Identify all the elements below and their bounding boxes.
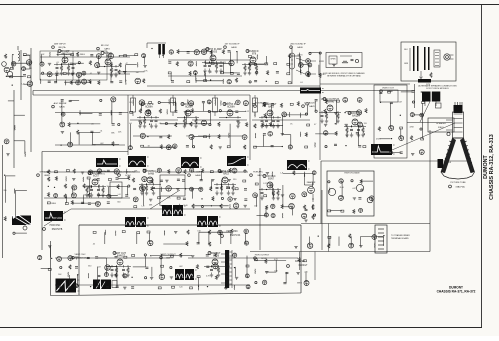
svg-text:6CB6A: 6CB6A bbox=[227, 106, 235, 109]
svg-text:DUMONT: DUMONT bbox=[483, 154, 489, 178]
svg-text:6AQ5A: 6AQ5A bbox=[352, 115, 360, 118]
svg-text:.01: .01 bbox=[56, 62, 59, 64]
svg-text:6AX4GT: 6AX4GT bbox=[299, 264, 308, 267]
svg-text:47: 47 bbox=[314, 124, 316, 126]
svg-text:IMEG: IMEG bbox=[297, 282, 302, 284]
svg-text:.05: .05 bbox=[159, 123, 162, 125]
svg-text:.002: .002 bbox=[179, 266, 183, 268]
svg-text:L-8: L-8 bbox=[280, 173, 283, 175]
svg-text:CONTROL: CONTROL bbox=[95, 174, 106, 176]
svg-text:RF OSC: RF OSC bbox=[101, 45, 110, 47]
svg-text:6AU6: 6AU6 bbox=[297, 46, 303, 49]
svg-text:L-8: L-8 bbox=[129, 123, 132, 125]
svg-text:.002: .002 bbox=[228, 109, 232, 111]
svg-text:HOR OUTPUT: HOR OUTPUT bbox=[255, 255, 270, 257]
svg-text:6CB6A: 6CB6A bbox=[145, 106, 153, 109]
svg-text:6AU6: 6AU6 bbox=[59, 105, 65, 108]
svg-text:470K: 470K bbox=[409, 126, 414, 128]
svg-text:6T8: 6T8 bbox=[252, 53, 257, 56]
svg-text:6AH6: 6AH6 bbox=[195, 174, 201, 177]
svg-text:L-8: L-8 bbox=[22, 84, 25, 86]
svg-text:2ND SOUND IF: 2ND SOUND IF bbox=[290, 44, 306, 46]
svg-text:IMEG: IMEG bbox=[51, 203, 56, 205]
svg-text:FOCUS: FOCUS bbox=[445, 162, 452, 164]
svg-text:330: 330 bbox=[27, 54, 30, 56]
svg-text:DAMPER: DAMPER bbox=[307, 181, 316, 184]
svg-text:C-12: C-12 bbox=[263, 183, 267, 185]
svg-text:100: 100 bbox=[254, 206, 257, 208]
svg-text:6AU6: 6AU6 bbox=[231, 46, 237, 49]
svg-text:6SN7GT: 6SN7GT bbox=[78, 257, 87, 259]
svg-text:.047: .047 bbox=[398, 102, 402, 104]
svg-text:VIDEO OUT: VIDEO OUT bbox=[382, 88, 395, 90]
svg-text:CHASSIS RA-371, RA-372: CHASSIS RA-371, RA-372 bbox=[437, 290, 476, 294]
svg-text:.047: .047 bbox=[136, 72, 140, 74]
svg-text:560: 560 bbox=[117, 201, 120, 203]
svg-text:117V: 117V bbox=[426, 84, 431, 86]
svg-text:6AF4: 6AF4 bbox=[104, 47, 110, 50]
svg-text:C-12: C-12 bbox=[245, 111, 249, 113]
svg-text:.05: .05 bbox=[247, 72, 250, 74]
svg-text:L-8: L-8 bbox=[118, 194, 121, 196]
svg-text:1ST SOUND IF: 1ST SOUND IF bbox=[224, 44, 240, 46]
svg-text:SPKR: SPKR bbox=[319, 61, 325, 63]
svg-text:6SN7GTB: 6SN7GTB bbox=[52, 229, 63, 231]
svg-text:6AL5: 6AL5 bbox=[223, 173, 229, 176]
svg-text:L-8: L-8 bbox=[300, 82, 303, 84]
svg-text:6AV6: 6AV6 bbox=[309, 105, 315, 108]
svg-text:6AL5: 6AL5 bbox=[257, 174, 263, 177]
svg-text:.047: .047 bbox=[61, 63, 65, 65]
svg-text:HOR OSC: HOR OSC bbox=[50, 225, 61, 227]
svg-text:.047: .047 bbox=[97, 267, 101, 269]
svg-text:330: 330 bbox=[233, 179, 236, 181]
svg-text:.01: .01 bbox=[91, 124, 94, 126]
svg-text:.047: .047 bbox=[352, 188, 356, 190]
svg-text:6SN7: 6SN7 bbox=[268, 178, 275, 181]
svg-text:6BE6: 6BE6 bbox=[44, 175, 50, 177]
svg-text:HORIZONTAL: HORIZONTAL bbox=[93, 170, 107, 173]
svg-text:R-40: R-40 bbox=[183, 205, 187, 207]
svg-text:.002: .002 bbox=[41, 54, 45, 56]
svg-text:6CB6A: 6CB6A bbox=[185, 106, 193, 109]
svg-text:FOR 21 INCH MODELS: FOR 21 INCH MODELS bbox=[426, 88, 449, 90]
svg-text:.01: .01 bbox=[89, 73, 92, 75]
svg-text:GRN: GRN bbox=[404, 63, 409, 65]
svg-text:470K: 470K bbox=[376, 138, 381, 140]
svg-text:330: 330 bbox=[88, 266, 91, 268]
svg-text:FOR UHF MODELS, CIRCUIT USED I: FOR UHF MODELS, CIRCUIT USED IS CHANGED bbox=[323, 72, 365, 75]
svg-text:6SN7GTA: 6SN7GTA bbox=[230, 234, 241, 237]
svg-text:HIGH VOLTAGE: HIGH VOLTAGE bbox=[344, 172, 360, 175]
svg-text:120: 120 bbox=[179, 286, 182, 288]
svg-text:IMEG: IMEG bbox=[298, 55, 303, 57]
svg-text:TO TRANSFORMER: TO TRANSFORMER bbox=[391, 234, 410, 237]
svg-text:47: 47 bbox=[125, 63, 127, 65]
svg-text:C-12: C-12 bbox=[129, 102, 133, 104]
svg-text:SPKR: SPKR bbox=[331, 59, 337, 61]
svg-text:.05: .05 bbox=[92, 243, 95, 245]
svg-text:FIELD: FIELD bbox=[438, 127, 444, 129]
svg-text:AGC KEYER: AGC KEYER bbox=[54, 102, 67, 105]
svg-text:VERT OSC: VERT OSC bbox=[74, 254, 86, 256]
svg-text:BETWEEN TERMINALS FOR UHF BAND: BETWEEN TERMINALS FOR UHF BAND bbox=[327, 74, 361, 77]
svg-text:100: 100 bbox=[83, 194, 86, 196]
svg-text:330: 330 bbox=[3, 190, 6, 192]
svg-text:.01: .01 bbox=[100, 131, 103, 133]
svg-text:ANT INPUT: ANT INPUT bbox=[54, 43, 66, 46]
svg-text:L-8: L-8 bbox=[142, 205, 145, 207]
svg-text:IMEG: IMEG bbox=[80, 54, 85, 56]
svg-text:120: 120 bbox=[364, 123, 367, 125]
svg-text:TERMINAL BOARD: TERMINAL BOARD bbox=[391, 237, 409, 240]
svg-text:6BQ7A: 6BQ7A bbox=[58, 46, 66, 49]
svg-text:SYNC PHASE INV: SYNC PHASE INV bbox=[117, 171, 136, 174]
svg-text:PICTURE TUBE: PICTURE TUBE bbox=[450, 182, 466, 184]
svg-text:.002: .002 bbox=[100, 143, 104, 145]
svg-text:HOR AFC: HOR AFC bbox=[253, 171, 263, 174]
svg-text:47: 47 bbox=[210, 72, 212, 74]
svg-text:470K: 470K bbox=[91, 145, 96, 147]
svg-text:SPEAKER: SPEAKER bbox=[436, 122, 446, 125]
svg-text:19ALP4A: 19ALP4A bbox=[455, 186, 465, 189]
svg-text:6W6GT: 6W6GT bbox=[166, 257, 174, 259]
svg-text:6AN8: 6AN8 bbox=[148, 173, 155, 176]
svg-text:CHASSIS RA-312, RA-313: CHASSIS RA-312, RA-313 bbox=[489, 134, 495, 200]
svg-text:R-40: R-40 bbox=[340, 187, 344, 189]
